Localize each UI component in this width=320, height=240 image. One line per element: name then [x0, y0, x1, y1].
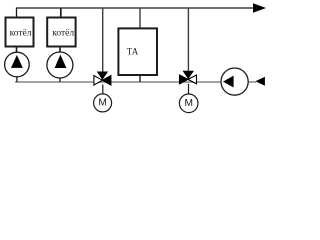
wire: TA tank to return line	[139, 75, 141, 82]
wire: boiler2 riser	[60, 8, 62, 17]
return line (lower header)	[15, 81, 256, 83]
wire: drop to TA tank	[139, 8, 141, 28]
accumulator tank TA	[118, 28, 157, 75]
svg-text:M: M	[98, 98, 107, 109]
boiler K2	[47, 18, 75, 47]
wire: drop to valve V2	[187, 8, 189, 71]
three-way valve V1	[94, 72, 111, 85]
return flow arrow	[255, 77, 265, 86]
motor actuator M1	[94, 94, 112, 112]
wire: boiler2 to pump P2	[59, 48, 61, 54]
svg-text:котёл: котёл	[52, 29, 74, 39]
supply line (top header)	[17, 8, 254, 17]
wire: valve V1 to actuator M1	[102, 85, 104, 95]
pump P1	[5, 52, 30, 82]
motor actuator M2	[179, 94, 198, 113]
pump P2	[47, 52, 73, 82]
pump P3	[221, 68, 248, 95]
svg-text:M: M	[184, 98, 193, 109]
supply flow arrow	[253, 3, 266, 12]
wire: boiler1 to pump P1	[16, 48, 18, 54]
svg-text:котёл: котёл	[10, 29, 32, 39]
wire: drop to valve V1	[102, 8, 104, 72]
boiler K1	[6, 18, 34, 47]
svg-text:ТА: ТА	[127, 47, 139, 57]
three-way valve V2	[180, 71, 197, 84]
wire: valve V2 to actuator M2	[188, 84, 190, 94]
